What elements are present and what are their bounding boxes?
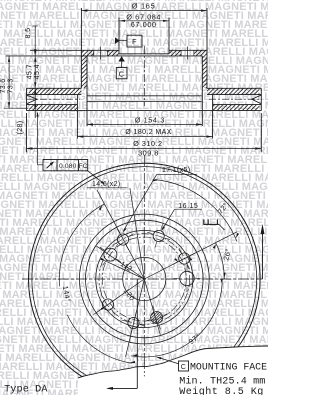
svg-text:C: C <box>181 364 186 371</box>
radial rays <box>97 190 144 279</box>
hat flange circle <box>86 220 204 338</box>
break line white region <box>78 346 268 395</box>
hatching: hat plate left <box>87 50 94 56</box>
angle arc 26 <box>216 243 225 279</box>
vent wedge left <box>27 95 37 99</box>
chamfer circle <box>32 167 257 392</box>
dim 8.5 <box>34 26 36 56</box>
hatching: hat wall left <box>81 50 87 88</box>
bolt circle dia120 dash-dot <box>99 234 190 325</box>
front view outer circle <box>29 163 261 395</box>
vertical centerline through break <box>143 362 145 376</box>
datum target symbol <box>203 223 219 225</box>
svg-text:Min. TH25.4 mm: Min. TH25.4 mm <box>179 376 265 388</box>
sectioned stud hole (hatched) <box>151 312 163 324</box>
svg-text:MOUNTING FACE: MOUNTING FACE <box>190 362 267 373</box>
arrow cluster at stud c <box>188 257 192 261</box>
bottom plate top surfaces <box>27 104 78 106</box>
svg-text:Weight 8.5 Kg: Weight 8.5 Kg <box>179 386 264 395</box>
datum C box <box>116 68 127 79</box>
hole ray <box>97 246 145 279</box>
mounting face line + left extension <box>6 55 203 57</box>
stud hole edges in hat plate <box>93 50 95 56</box>
bore edge verticals + extensions to dia 67 dim <box>118 18 120 54</box>
dim dia 67.084 / 67.000 <box>119 20 169 22</box>
angle arc 72 <box>155 180 237 242</box>
disc bottom surface <box>27 110 262 112</box>
vertical centerline <box>143 155 145 376</box>
hat flange outer verticals + extensions to dia 165 dim <box>80 8 82 88</box>
freehand break line <box>78 346 268 378</box>
horizontal centerline <box>22 278 262 280</box>
friction band inner circle <box>79 214 209 344</box>
under-hat recess lines <box>87 95 202 97</box>
hat top surface line <box>30 49 119 51</box>
stud hole centerline ticks <box>100 47 102 60</box>
hatching: hat plate right <box>169 50 181 56</box>
hatching: bottom plate left <box>29 105 77 111</box>
dim 120 ray <box>94 279 145 315</box>
datum F box <box>127 35 142 47</box>
dim 112 ray <box>106 261 144 279</box>
hatching: hat wall right <box>202 50 207 88</box>
dim (28) <box>34 88 36 118</box>
dim dia 154.3 <box>87 124 202 126</box>
dim 45.7 / 45.4 <box>34 56 36 88</box>
vent centerline dash-dot <box>27 98 80 100</box>
circle dia112 dash-dot <box>102 237 186 321</box>
dim 73.6 / 73.3 <box>8 56 10 108</box>
hatching: top plate right <box>207 88 259 94</box>
cutting plane bottom leg <box>136 279 138 388</box>
hub flange circle <box>96 230 193 327</box>
angle arc 144 <box>59 204 104 287</box>
dim dia 165 <box>81 10 207 12</box>
dim dia 180.2 MAX <box>77 136 212 138</box>
dia310.2 extension lines <box>26 113 28 152</box>
center bore circle <box>123 257 166 300</box>
runout tolerance frame 0.080 FC <box>43 160 88 171</box>
cutting plane bottom leg overlay <box>136 366 138 388</box>
watermark MAGNETI MARELLI <box>0 0 320 4</box>
vent wedge right <box>252 95 261 99</box>
bore bottom visible edge <box>119 53 169 55</box>
hatching: top plate left <box>29 88 81 94</box>
angle arc 97 <box>131 283 222 357</box>
cutting plane right leg <box>262 234 264 279</box>
tolerance leader to section <box>37 113 39 165</box>
hat wall inner verticals (dia154.3 extensions) <box>86 56 88 126</box>
svg-text:Type DA: Type DA <box>4 385 48 395</box>
mounting face label <box>179 361 189 371</box>
disc OD edges <box>26 88 28 110</box>
tolerance leader to front view circle <box>88 171 104 184</box>
hatching: bottom plate right <box>213 105 260 111</box>
disc top friction surfaces <box>27 87 82 89</box>
dim dia 310.2 / 309.8 <box>27 148 262 150</box>
section centerline <box>143 46 145 106</box>
vent inner edges / dia180.2 extensions <box>76 95 78 139</box>
top plate bottom surfaces <box>27 94 82 96</box>
